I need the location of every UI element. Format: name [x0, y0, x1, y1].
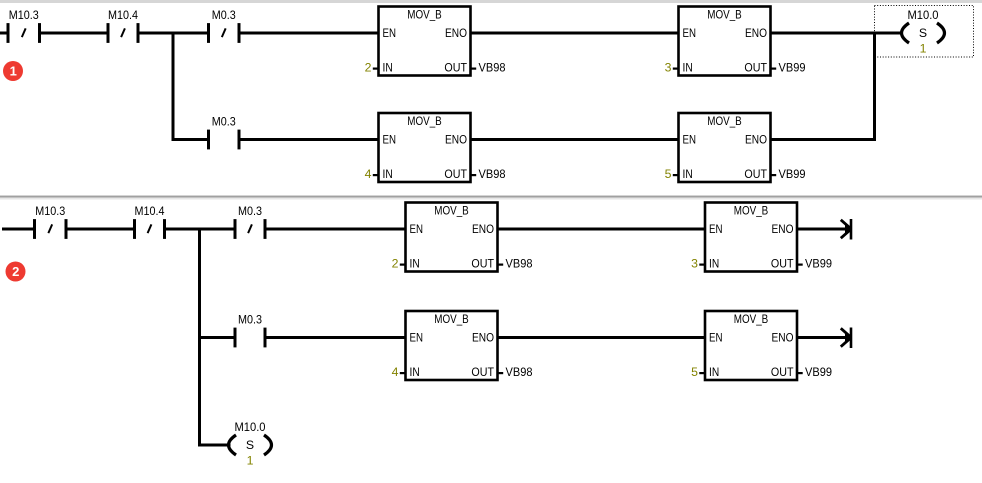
- svg-text:1: 1: [920, 42, 927, 56]
- svg-text:IN: IN: [683, 61, 693, 75]
- svg-text:2: 2: [365, 61, 372, 75]
- svg-text:5: 5: [665, 167, 672, 181]
- NC contact M10.3: [8, 8, 40, 43]
- svg-text:VB98: VB98: [506, 365, 533, 379]
- svg-text:4: 4: [392, 365, 399, 379]
- svg-text:M0.3: M0.3: [212, 8, 236, 22]
- wire: [239, 138, 379, 141]
- wire: [200, 444, 231, 447]
- svg-text:VB99: VB99: [779, 167, 806, 181]
- svg-text:VB99: VB99: [805, 257, 832, 271]
- pin IN of B1 with value 2: [365, 61, 379, 75]
- svg-text:EN: EN: [683, 132, 697, 146]
- svg-text:M10.3: M10.3: [9, 8, 39, 22]
- wire: [471, 138, 679, 141]
- svg-text:1: 1: [247, 454, 254, 468]
- svg-text:EN: EN: [709, 222, 723, 236]
- MOV_B box B3: [379, 113, 471, 182]
- open branch arrow: [841, 219, 851, 240]
- open branch arrow: [841, 328, 851, 349]
- svg-text:VB98: VB98: [479, 167, 506, 181]
- svg-text:ENO: ENO: [445, 26, 467, 40]
- svg-text:ENO: ENO: [445, 132, 467, 146]
- network 2 badge: [6, 262, 26, 282]
- MOV_B box B4: [679, 113, 771, 182]
- wire: [200, 336, 236, 339]
- svg-text:M10.4: M10.4: [108, 8, 138, 22]
- selection box around coil: [875, 6, 974, 58]
- MOV_B box B1: [379, 7, 471, 76]
- NC contact M10.3: [35, 204, 67, 239]
- svg-text:3: 3: [665, 61, 672, 75]
- svg-text:OUT: OUT: [771, 365, 794, 379]
- svg-text:M10.4: M10.4: [135, 204, 165, 218]
- NO contact M0.3: [209, 114, 240, 149]
- junction: branch rail down: [198, 228, 201, 447]
- MOV_B box B6: [705, 203, 797, 272]
- pin OUT of B8 to VB99: [797, 365, 832, 379]
- svg-text:S: S: [246, 438, 254, 452]
- svg-text:EN: EN: [383, 26, 397, 40]
- pin OUT of B1 to VB98: [471, 61, 506, 75]
- MOV_B box B8: [705, 311, 797, 380]
- svg-text:EN: EN: [410, 330, 424, 344]
- wire: [265, 336, 406, 339]
- pin IN of B5 with value 2: [392, 257, 406, 271]
- pin IN of B8 with value 5: [691, 365, 705, 379]
- svg-text:ENO: ENO: [745, 132, 767, 146]
- pin IN of B4 with value 5: [665, 167, 679, 181]
- svg-text:OUT: OUT: [471, 257, 494, 271]
- svg-text:ENO: ENO: [745, 26, 767, 40]
- svg-text:MOV_B: MOV_B: [734, 312, 769, 326]
- wire: [771, 32, 904, 35]
- svg-text:M10.3: M10.3: [35, 204, 65, 218]
- NC contact M0.3: [209, 8, 240, 43]
- svg-text:MOV_B: MOV_B: [734, 203, 769, 217]
- wire: [165, 228, 236, 231]
- svg-text:ENO: ENO: [472, 222, 494, 236]
- svg-text:OUT: OUT: [744, 61, 767, 75]
- NC contact M0.3: [235, 204, 265, 239]
- wire: [498, 228, 706, 231]
- coil M10.0 (S): [902, 8, 945, 56]
- svg-text:OUT: OUT: [444, 61, 467, 75]
- wire: [173, 138, 209, 141]
- wire: [265, 228, 406, 231]
- wire: [797, 336, 850, 339]
- wire: [2, 228, 35, 231]
- junction: right rail joining branch to coil: [873, 32, 876, 142]
- NO contact M0.3: [235, 312, 265, 347]
- svg-text:5: 5: [691, 365, 698, 379]
- svg-text:2: 2: [12, 264, 19, 279]
- wire: [797, 228, 850, 231]
- svg-text:M10.0: M10.0: [908, 8, 939, 22]
- wire: [239, 32, 379, 35]
- pin IN of B3 with value 4: [365, 167, 379, 181]
- pin OUT of B5 to VB98: [498, 257, 533, 271]
- svg-text:MOV_B: MOV_B: [407, 114, 442, 128]
- svg-text:M10.0: M10.0: [235, 420, 266, 434]
- wire: [771, 138, 875, 141]
- svg-text:VB99: VB99: [779, 61, 806, 75]
- wire: [471, 32, 679, 35]
- svg-text:M0.3: M0.3: [238, 312, 262, 326]
- svg-text:IN: IN: [383, 167, 393, 181]
- svg-text:S: S: [919, 26, 927, 40]
- pin OUT of B7 to VB98: [498, 365, 533, 379]
- svg-text:MOV_B: MOV_B: [707, 7, 742, 21]
- svg-text:3: 3: [691, 257, 698, 271]
- pin OUT of B4 to VB99: [771, 167, 806, 181]
- pin OUT of B6 to VB99: [797, 257, 832, 271]
- NC contact M10.4: [108, 8, 138, 43]
- pin IN of B2 with value 3: [665, 61, 679, 75]
- svg-text:IN: IN: [383, 61, 393, 75]
- svg-text:EN: EN: [683, 26, 697, 40]
- junction: branch down: [172, 32, 175, 142]
- svg-text:M0.3: M0.3: [238, 204, 262, 218]
- svg-text:ENO: ENO: [772, 222, 794, 236]
- pin IN of B6 with value 3: [691, 257, 705, 271]
- wire: [0, 32, 8, 35]
- svg-text:VB98: VB98: [506, 257, 533, 271]
- svg-text:EN: EN: [709, 330, 723, 344]
- svg-text:OUT: OUT: [771, 257, 794, 271]
- wire: [138, 32, 209, 35]
- svg-text:2: 2: [392, 257, 399, 271]
- network 1 badge: [3, 61, 23, 81]
- svg-text:VB99: VB99: [805, 365, 832, 379]
- MOV_B box B7: [406, 311, 498, 380]
- wire: [40, 32, 109, 35]
- svg-text:4: 4: [365, 167, 372, 181]
- pin OUT of B2 to VB99: [771, 61, 806, 75]
- svg-text:MOV_B: MOV_B: [407, 7, 442, 21]
- svg-text:OUT: OUT: [444, 167, 467, 181]
- wire: [498, 336, 706, 339]
- pin OUT of B3 to VB98: [471, 167, 506, 181]
- svg-text:IN: IN: [683, 167, 693, 181]
- svg-text:MOV_B: MOV_B: [434, 312, 469, 326]
- svg-text:VB98: VB98: [479, 61, 506, 75]
- svg-text:ENO: ENO: [772, 330, 794, 344]
- svg-text:1: 1: [10, 64, 17, 79]
- svg-text:IN: IN: [410, 257, 420, 271]
- MOV_B box B2: [679, 7, 771, 76]
- svg-text:M0.3: M0.3: [212, 114, 236, 128]
- coil M10.0 (S): [229, 420, 272, 468]
- svg-text:MOV_B: MOV_B: [434, 203, 469, 217]
- pin IN of B7 with value 4: [392, 365, 406, 379]
- svg-text:EN: EN: [410, 222, 424, 236]
- svg-text:OUT: OUT: [744, 167, 767, 181]
- svg-text:EN: EN: [383, 132, 397, 146]
- NC contact M10.4: [135, 204, 165, 239]
- svg-text:IN: IN: [709, 365, 719, 379]
- toolbar bottom strip: [0, 0, 982, 3]
- svg-text:IN: IN: [410, 365, 420, 379]
- svg-text:MOV_B: MOV_B: [707, 114, 742, 128]
- wire: [66, 228, 135, 231]
- svg-text:IN: IN: [709, 257, 719, 271]
- svg-text:ENO: ENO: [472, 330, 494, 344]
- network separator: [0, 196, 982, 200]
- svg-text:OUT: OUT: [471, 365, 494, 379]
- MOV_B box B5: [406, 203, 498, 272]
